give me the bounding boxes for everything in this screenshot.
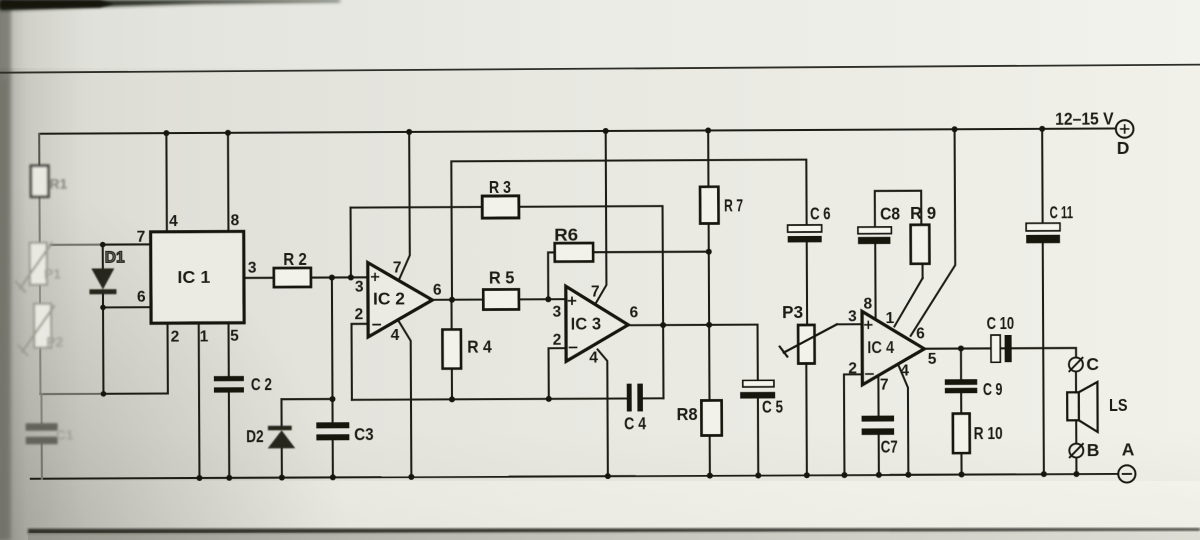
junction: C3 branch / pin3 row: [329, 274, 335, 280]
svg-text:3: 3: [248, 260, 257, 277]
IC4 minus input mark: [866, 373, 873, 375]
resistor R7: [700, 187, 718, 224]
wire: IC1 pin7 row left part: [51, 244, 103, 246]
wire: C2 to ground: [228, 392, 230, 477]
wire: IC3 pin2 loop: [549, 348, 567, 399]
junction: speaker return / ground: [1073, 471, 1079, 477]
junction: D2 / ground: [279, 475, 285, 481]
svg-text:B: B: [1087, 440, 1100, 460]
svg-text:D2: D2: [246, 426, 264, 446]
junction: P3 / ground: [804, 472, 810, 478]
resistor R8: [701, 400, 721, 435]
svg-text:C 4: C 4: [624, 413, 646, 433]
wire: R7 node down to output row: [708, 252, 710, 325]
wire: R6 left vertical to pin3 node: [548, 252, 555, 299]
svg-text:C 10: C 10: [987, 313, 1015, 333]
svg-text:R 3: R 3: [489, 177, 511, 197]
junction: IC2 pin4 / ground: [408, 474, 414, 480]
capacitor C9: [945, 379, 977, 385]
wire: C11 bottom lead to ground: [1043, 243, 1044, 474]
wire: C3 to ground: [332, 440, 334, 477]
svg-text:5: 5: [230, 328, 239, 345]
svg-text:2: 2: [848, 360, 857, 377]
svg-text:7: 7: [880, 377, 889, 394]
junction: R3 feedback / IC3 output row: [660, 322, 666, 328]
IC1 (timer) body: [151, 231, 244, 323]
wire: R3 row left: [351, 206, 483, 209]
wire: IC1 pin3 to R2: [244, 277, 274, 279]
wire: R5 right lead to IC3 pin3: [519, 298, 566, 300]
junction: C7 / ground: [876, 472, 882, 478]
IC3 plus input mark: [569, 297, 576, 304]
svg-text:P3: P3: [782, 302, 803, 322]
capacitor C6: [788, 225, 822, 232]
svg-text:C: C: [1086, 354, 1099, 374]
capacitor C7: [862, 416, 895, 422]
wire: C9 top lead: [960, 349, 962, 380]
svg-text:R8: R8: [677, 404, 698, 424]
potentiometer P2: [34, 304, 51, 348]
potentiometer P1: [30, 243, 47, 285]
svg-text:IC 1: IC 1: [177, 267, 210, 287]
IC3 minus input mark: [570, 346, 577, 348]
wire: node row (trigger node) to IC1 pin2: [103, 323, 168, 394]
junction: IC3 pin4 / ground: [605, 473, 611, 479]
wire: C11 top lead from rail: [1041, 129, 1044, 223]
top scan band: [0, 0, 340, 11]
wire: R7 top lead: [707, 130, 709, 186]
svg-text:3: 3: [553, 304, 562, 321]
svg-text:3: 3: [355, 279, 364, 296]
junction: C9 / IC4 output row: [958, 346, 964, 352]
wire: left sensor chain vertical top: [38, 134, 40, 166]
wire: IC4 pin6 diagonal stub to rail: [910, 129, 956, 336]
P3 wiper tail flag: [780, 347, 788, 357]
svg-text:C 2: C 2: [251, 374, 272, 394]
svg-text:4: 4: [391, 327, 400, 344]
P1 wiper arrow: [20, 243, 52, 288]
wire: top supply rail: [39, 128, 1115, 133]
terminal + (supply): [1116, 120, 1134, 138]
wire: node row left part: [40, 393, 103, 395]
junction: D1 / pin7 row: [100, 242, 106, 248]
wire: IC1 pin5 to C2: [227, 323, 229, 376]
wire: R7 bottom lead to node: [708, 223, 710, 251]
junction: R8 / ground: [707, 473, 713, 479]
junction: C11 / ground: [1041, 471, 1047, 477]
junction: C2 / ground: [226, 475, 232, 481]
svg-text:R 4: R 4: [467, 336, 492, 356]
wire: R6 right lead to R7 node: [593, 251, 709, 254]
wire: D2 top lead: [280, 399, 282, 426]
svg-text:LS: LS: [1109, 395, 1128, 415]
wire: IC4 output row to speaker corner: [924, 348, 1076, 358]
wire: IC1 pin6 row: [103, 306, 151, 308]
svg-text:6: 6: [916, 325, 925, 342]
wire: R3 left vertical down to IC2 pin3: [350, 208, 352, 278]
junction: R6 / R7 node: [706, 249, 712, 255]
wire: IC2 pin4 stub to ground: [399, 321, 412, 477]
wire: IC4 pin1 diagonal stub: [894, 278, 923, 326]
svg-text:R 10: R 10: [974, 423, 1003, 443]
junction: R7-R8 / IC3 output row: [706, 322, 712, 328]
wire: terminal B to ground: [1075, 458, 1077, 474]
svg-text:5: 5: [928, 351, 937, 368]
wire: R10 to ground: [960, 453, 962, 474]
wire: D1 bottom lead down to node row: [102, 293, 105, 393]
wire: IC2 output row: [432, 299, 483, 301]
junction: R3 vertical / pin3 row: [348, 274, 354, 280]
wire: R2 to IC2 pin3: [311, 276, 368, 278]
svg-text:1: 1: [886, 310, 895, 327]
svg-text:C 9: C 9: [983, 379, 1003, 399]
capacitor C11: [1026, 223, 1060, 231]
wire: speaker to terminal B: [1075, 420, 1077, 443]
svg-text:R 9: R 9: [910, 203, 936, 223]
capacitor C4 (vertical plates): [627, 384, 632, 412]
svg-text:R 2: R 2: [283, 249, 307, 269]
bottom-left corner shade: [0, 150, 430, 540]
P2 wiper arrow: [22, 306, 54, 352]
junction: IC3 pin2 loop / bottom row: [546, 396, 552, 402]
resistor R1: [31, 166, 49, 197]
junction: IC1 pin4 / rail: [163, 130, 169, 136]
P3 wiper arrow: [784, 324, 837, 352]
bottom dark strip: [28, 528, 1200, 534]
wire: C5 bottom to ground: [757, 399, 759, 476]
P2 wiper tail flag: [18, 345, 27, 355]
svg-text:6: 6: [630, 304, 639, 321]
wire: IC4 pin7 to C7: [877, 376, 879, 416]
resistor R9: [911, 225, 930, 264]
svg-text:P2: P2: [46, 334, 63, 350]
wire: R8 bottom lead: [709, 435, 711, 475]
wire: R4 bottom lead: [451, 369, 453, 400]
wire: bottom ground rail: [31, 473, 1118, 479]
junction: D1 / node row: [101, 391, 107, 397]
junction: C3 / ground: [330, 474, 336, 480]
wire: C7 to ground: [878, 434, 880, 474]
svg-text:4: 4: [589, 350, 598, 367]
wire: IC4 pin4 stub to ground: [898, 365, 908, 475]
svg-text:6: 6: [433, 282, 442, 299]
svg-text:1: 1: [200, 328, 209, 345]
wire: node down through C1: [40, 394, 42, 423]
svg-text:2: 2: [171, 329, 180, 346]
wire: integrator bottom row: [352, 398, 627, 399]
resistor R5: [483, 289, 519, 309]
svg-text:7: 7: [393, 259, 402, 276]
resistor R6: [555, 243, 593, 262]
capacitor C10 (vertical plates): [991, 335, 1000, 362]
resistor R4: [442, 329, 461, 368]
junction: IC4 pin2 / ground: [841, 472, 847, 478]
below-strip gray: [28, 533, 1200, 540]
svg-text:7: 7: [591, 284, 600, 301]
top-left dark blob: [0, 0, 113, 9]
wire: R3 row right, corner down to IC3 output row: [519, 206, 664, 399]
capacitor C8: [858, 227, 891, 234]
wire: IC4 pin2 loop to ground: [844, 374, 863, 474]
svg-text:4: 4: [900, 362, 909, 379]
op-amp IC4 (power amp): [862, 311, 924, 385]
P1 wiper tail flag: [16, 282, 25, 292]
junction: IC2 pin7 / rail: [406, 129, 412, 135]
junction: D2 row / C3 vertical: [329, 396, 335, 402]
svg-text:R 5: R 5: [489, 267, 515, 287]
wire: IC3 pin7 stub to rail: [595, 131, 607, 304]
svg-text:C3: C3: [354, 424, 374, 444]
capacitor C5: [743, 380, 774, 387]
junction: R7 / rail: [705, 127, 711, 133]
wire: IC2 pin7 stub to rail: [399, 132, 410, 278]
IC2 minus input mark: [373, 324, 380, 326]
svg-text:C7: C7: [881, 437, 898, 457]
wire: R9 bottom lead: [922, 264, 924, 278]
junction: IC1 pin1 / ground: [196, 475, 202, 481]
svg-text:C1: C1: [56, 427, 74, 443]
op-amp IC3: [566, 286, 628, 361]
wire: terminal C to speaker: [1075, 372, 1077, 392]
left scan edge shadow: [0, 0, 11, 540]
diode D2: [268, 426, 296, 449]
svg-text:4: 4: [169, 213, 178, 230]
wire: D1 top lead: [102, 245, 104, 269]
junction: IC3 pin7 / rail: [603, 128, 609, 134]
junction: C11 / rail: [1039, 126, 1045, 132]
junction: IC1 pin8 / rail: [225, 130, 231, 136]
wire: C9 to R10: [960, 393, 962, 414]
wire: C8 bottom to IC4 pin8: [874, 244, 876, 320]
capacitor C2: [214, 376, 244, 381]
wire: IC1 pin7 row: [103, 243, 151, 245]
svg-text:7: 7: [137, 229, 146, 246]
svg-text:IC 3: IC 3: [571, 313, 602, 333]
potentiometer P3: [798, 325, 814, 364]
wire: output up to coupling row (line2) and over to C6: [451, 160, 807, 300]
svg-text:R1: R1: [49, 176, 67, 192]
diode D1: [89, 268, 116, 294]
resistor R10: [953, 414, 970, 453]
svg-text:C8: C8: [880, 204, 900, 224]
wire: R8 top lead: [708, 325, 710, 401]
wire: D2 top row: [281, 398, 332, 400]
wire: IC1 pin4 to rail: [165, 133, 168, 232]
speaker LS: [1067, 382, 1098, 432]
junction: R4 / bottom row: [449, 396, 455, 402]
svg-text:8: 8: [231, 212, 240, 229]
junction: R4 / IC2 output: [449, 297, 455, 303]
svg-text:D: D: [1117, 138, 1130, 158]
wire: R4 top lead: [450, 300, 452, 330]
junction: D1 / pin6 row: [100, 305, 106, 311]
svg-text:8: 8: [863, 296, 872, 313]
IC2 plus input mark: [372, 273, 379, 280]
op-amp IC2: [368, 262, 433, 337]
resistor R2: [274, 268, 311, 287]
svg-text:6: 6: [137, 289, 146, 306]
wire: P3 bottom to ground: [805, 363, 808, 474]
junction: C5 / ground: [755, 472, 761, 478]
svg-text:P1: P1: [44, 266, 61, 282]
svg-text:3: 3: [848, 308, 857, 325]
wire: C4 right plate to feedback vertical: [643, 397, 664, 399]
svg-text:C 5: C 5: [762, 396, 783, 416]
svg-text:R 7: R 7: [724, 195, 743, 215]
svg-text:IC 2: IC 2: [373, 288, 405, 308]
svg-text:C 11: C 11: [1050, 202, 1074, 222]
junction: IC4 pin4 / ground: [905, 472, 911, 478]
wire: C3 branch vertical: [331, 278, 334, 423]
wire: C8 top to bridge to R9 top: [875, 191, 922, 227]
wire: P1 to P2 segment: [39, 285, 41, 304]
svg-text:12–15 V: 12–15 V: [1055, 108, 1114, 128]
terminal B (phono): [1069, 444, 1083, 458]
wire: P2 down to node row: [39, 348, 41, 394]
wire: IC1 pin1 to ground: [198, 323, 201, 478]
faint left sensor chain (faded scan): [15, 166, 73, 445]
wire: IC3 output row to C5 corner: [628, 325, 758, 381]
wire: R1 to P1 segment: [38, 197, 40, 243]
wire: P3 wiper to IC4 pin3: [837, 323, 862, 325]
junction: R10 / ground: [959, 472, 965, 478]
svg-text:R6: R6: [554, 225, 578, 245]
bright band under ground rail: [0, 481, 1200, 528]
terminal - (ground): [1118, 465, 1135, 482]
svg-text:2: 2: [553, 332, 562, 349]
svg-text:A: A: [1122, 439, 1135, 459]
bottom shading: [0, 430, 1200, 540]
wire: D2 bottom lead: [281, 447, 283, 478]
wire: C6 bottom to P3 top: [806, 242, 808, 325]
svg-text:IC 4: IC 4: [867, 337, 894, 357]
capacitor C3: [316, 422, 349, 428]
upper page band (brighter above rule): [0, 0, 1200, 68]
svg-text:D1: D1: [105, 249, 125, 266]
wire: IC2 pin2 loop to bottom row: [352, 324, 369, 400]
capacitor C1: [26, 423, 58, 431]
svg-text:C 6: C 6: [810, 203, 831, 223]
wire: IC1 pin8 to rail: [227, 133, 230, 232]
junction: IC4 pin6 / rail: [952, 126, 958, 132]
IC4 plus input mark: [865, 321, 872, 328]
page rule line: [0, 64, 1200, 74]
svg-text:2: 2: [355, 306, 364, 323]
terminal C (phono): [1069, 357, 1083, 371]
wire: C1 to ground: [41, 444, 43, 478]
wire: IC3 pin4 stub to ground: [598, 349, 608, 476]
resistor R3: [482, 196, 519, 218]
junction: R5 right / IC3 pin3 node: [545, 296, 551, 302]
